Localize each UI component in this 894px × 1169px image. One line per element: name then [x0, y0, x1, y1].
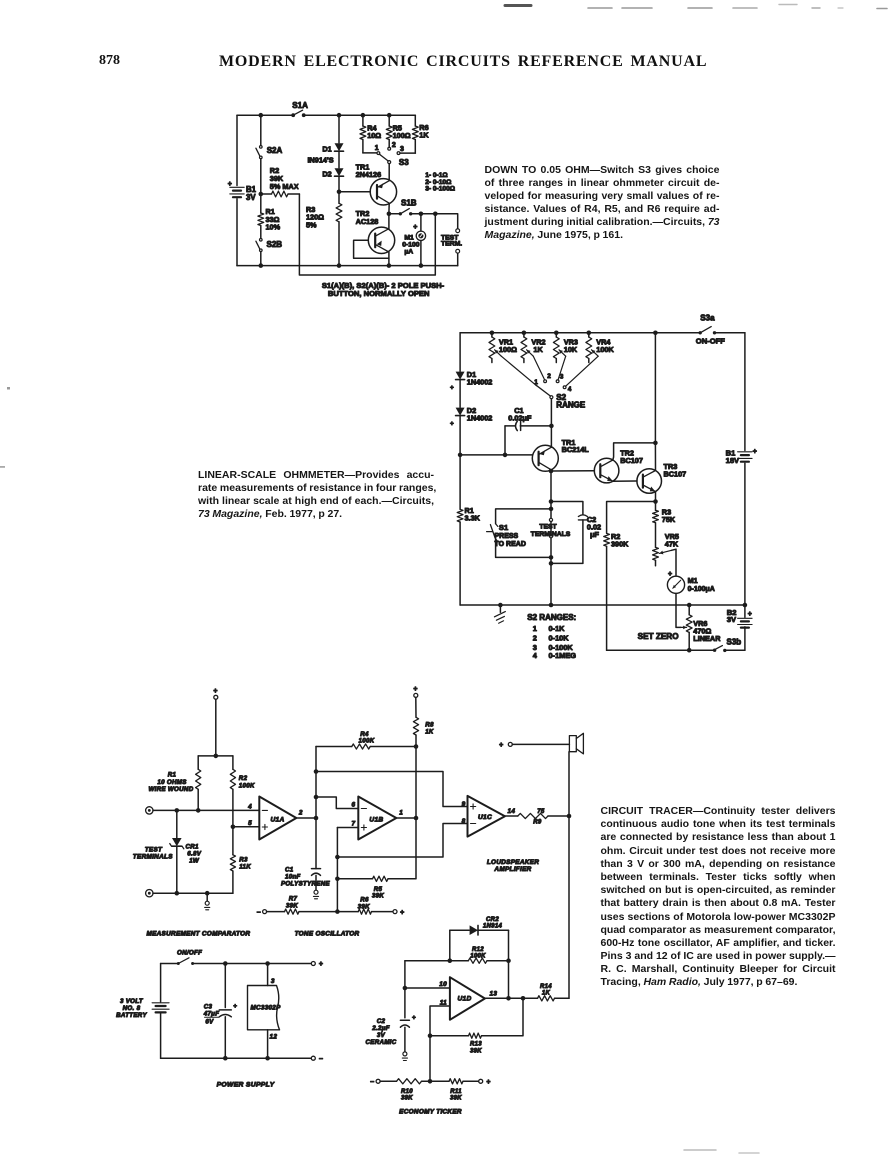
wire TR1 collector node down	[550, 471, 552, 502]
wire TR2 collector	[388, 214, 390, 229]
wire test terminal to U1A	[153, 809, 259, 811]
svg-text:5%: 5%	[306, 220, 317, 229]
svg-text:POWER SUPPLY: POWER SUPPLY	[217, 1082, 276, 1089]
wire D1 to D2	[459, 380, 461, 408]
svg-text:CR2: CR2	[486, 917, 499, 923]
wire left rail upper	[459, 333, 461, 371]
node VR2 top	[522, 331, 527, 336]
svg-text:IN914'S: IN914'S	[308, 155, 334, 164]
capacitor C1 0.02uF	[505, 406, 551, 455]
svg-text:100Ω: 100Ω	[393, 131, 411, 140]
svg-text:9: 9	[462, 801, 466, 808]
svg-text:WIRE WOUND: WIRE WOUND	[149, 786, 194, 793]
svg-text:1K: 1K	[425, 728, 434, 735]
resistor R13 39K	[430, 998, 523, 1054]
wire top rail left segment	[237, 114, 293, 116]
svg-text:100Ω: 100Ω	[499, 345, 517, 354]
svg-text:μF: μF	[590, 530, 599, 539]
svg-text:2.2μF: 2.2μF	[371, 1025, 390, 1032]
resistor R8 1K	[413, 697, 434, 746]
svg-text:100K: 100K	[470, 954, 486, 960]
node R8 R4 junction	[414, 744, 419, 749]
text block: CIRCUIT TRACER	[601, 805, 836, 990]
wire TR2 collector up and to rail branch	[613, 443, 656, 460]
wire TR1 emitter to S1B node	[388, 203, 390, 214]
svg-text:R10: R10	[401, 1089, 413, 1095]
wire M1 bottom to VR6 wiper	[676, 593, 687, 629]
wire VR4 wiper to contact 4	[566, 356, 598, 386]
svg-text:TONE OSCILLATOR: TONE OSCILLATOR	[295, 931, 360, 938]
svg-text:TEST: TEST	[539, 523, 557, 530]
svg-text:BUTTON, NORMALLY OPEN: BUTTON, NORMALLY OPEN	[328, 289, 430, 298]
resistor R4 10ohm	[360, 115, 381, 153]
svg-text:100K: 100K	[239, 783, 255, 790]
label 1N914'S	[308, 155, 334, 164]
svg-text:TEST: TEST	[145, 847, 163, 854]
wire R1 R2 top header	[198, 755, 233, 757]
wire bottom rail middle circuit	[460, 604, 745, 606]
wire comparator to U1C pin9	[316, 772, 468, 807]
svg-text:U1B: U1B	[369, 816, 383, 823]
wire TR3 emitter to node	[655, 492, 657, 502]
transistor TR2 AC128	[356, 209, 395, 254]
resistor R3 11K bottom circuit	[230, 827, 251, 893]
svg-text:+: +	[233, 1003, 237, 1010]
node R2/R1 junction	[259, 192, 264, 197]
legend S2 ranges	[527, 613, 576, 660]
svg-text:1N4002: 1N4002	[467, 414, 493, 423]
svg-text:4: 4	[533, 651, 538, 660]
svg-text:0-1K: 0-1K	[549, 624, 566, 633]
svg-text:D1: D1	[322, 144, 331, 153]
svg-text:8: 8	[462, 818, 466, 825]
label tone oscillator	[295, 931, 360, 938]
svg-text:−: −	[257, 909, 261, 916]
wire base node to TR1	[339, 191, 370, 193]
transistor TR1 2N4126	[356, 162, 397, 205]
node R7 R6 junction	[335, 909, 340, 914]
svg-text:10: 10	[439, 981, 447, 988]
transistor TR2 BC107	[594, 449, 643, 483]
svg-text:ON/OFF: ON/OFF	[177, 950, 202, 957]
svg-text:10Ω: 10Ω	[367, 131, 381, 140]
svg-text:3 VOLT: 3 VOLT	[120, 998, 144, 1005]
node R12 right	[506, 958, 511, 963]
svg-text:C3: C3	[204, 1004, 213, 1011]
resistor R12 100K	[405, 947, 509, 963]
resistor R2 39K 5% MAX	[261, 166, 300, 197]
wire oscillator left vertical	[315, 747, 317, 869]
wire TR2 emitter to TR3 base	[613, 480, 637, 482]
switch on/off power	[161, 958, 312, 965]
svg-text:11K: 11K	[239, 864, 251, 871]
node VR6 top rail	[687, 603, 692, 608]
svg-text:18V: 18V	[726, 456, 740, 465]
wire to TR2 base	[551, 470, 594, 472]
meter M1 0-100uA	[402, 214, 425, 266]
op-amp U1A	[247, 797, 296, 840]
svg-text:+: +	[412, 1014, 416, 1021]
svg-text:LOUDSPEAKER: LOUDSPEAKER	[487, 859, 539, 866]
svg-text:13: 13	[490, 990, 498, 997]
svg-text:6V: 6V	[205, 1019, 214, 1026]
resistor R2 390K	[604, 502, 656, 651]
wire S2 wire to TR1 emitter	[550, 426, 552, 447]
wire S2A branch upper	[260, 115, 262, 145]
wire VR5 wiper to meter	[672, 549, 677, 575]
node VR4 top	[587, 331, 592, 336]
node left rail TR1 base wire	[458, 453, 463, 458]
node VR6 bottom	[687, 648, 692, 653]
resistor R3 75K	[653, 502, 676, 548]
node supply to R1 R2	[214, 754, 219, 759]
wire top rail right segment	[304, 114, 416, 116]
op-amp U1C	[462, 796, 505, 837]
label measurement comparator	[146, 931, 250, 938]
svg-text:10nF: 10nF	[285, 874, 301, 881]
node C2 top junction	[549, 499, 554, 504]
svg-text:12: 12	[270, 1034, 278, 1041]
wire U1A output pin 2	[296, 809, 316, 818]
node output R13 branch	[521, 996, 526, 1001]
battery B1 18V	[726, 449, 757, 466]
svg-text:CR1: CR1	[186, 844, 200, 851]
wire rail branch vertical	[654, 333, 656, 443]
terminal TEST TERM top	[456, 229, 460, 233]
svg-text:−: −	[319, 1056, 323, 1063]
wire TR3 collector	[654, 443, 656, 471]
wire CR2 right vertical	[508, 930, 510, 998]
node R2 bottom inverting input	[231, 825, 236, 830]
diode D2 1N4002	[450, 406, 492, 428]
battery B1 3V	[228, 181, 257, 202]
wire bottom test terminal to rail	[457, 253, 459, 266]
label on/off	[177, 950, 202, 957]
node M1 bottom rail	[419, 263, 424, 268]
resistor R14 1K	[523, 984, 569, 1001]
svg-text:PRESS: PRESS	[495, 533, 519, 540]
svg-text:U1D: U1D	[458, 996, 472, 1003]
terminal TEST TERM bottom	[456, 249, 460, 253]
meter M1 0-100uA middle	[667, 571, 714, 593]
svg-text:TO READ: TO READ	[495, 541, 526, 548]
legend ranges	[425, 172, 456, 192]
wire S3 to TR1 collector	[388, 164, 390, 181]
svg-text:5% MAX: 5% MAX	[270, 182, 299, 191]
node R3 bottom rail	[337, 263, 342, 268]
node top rail / R4 branch	[361, 113, 366, 118]
terminal plus power supply	[311, 961, 323, 968]
node TR2 emitter bottom rail	[387, 263, 392, 268]
svg-text:R12: R12	[472, 947, 484, 953]
resistor R5 39K	[337, 818, 416, 900]
svg-text:+: +	[413, 224, 417, 231]
op-amp U1D	[439, 977, 485, 1020]
svg-text:1W: 1W	[189, 858, 200, 865]
node rail branch top	[653, 331, 658, 336]
node TR1/TR2/S1B junction	[387, 212, 392, 217]
svg-text:2N4126: 2N4126	[356, 170, 382, 179]
caption pushbutton note	[322, 281, 445, 298]
svg-text:R11: R11	[450, 1089, 462, 1095]
switch S3 contact 1	[375, 145, 380, 155]
wire TR1 collector to node	[550, 470, 552, 471]
node diode branch / TR1 base	[337, 190, 342, 195]
wire S2 wire pole to S1 top	[550, 502, 552, 509]
potentiometer VR2 1K	[521, 333, 546, 363]
svg-text:BC107: BC107	[664, 469, 687, 478]
text block: DOWN TO 0.05 OHM	[485, 164, 720, 243]
terminal plus economy ticker	[479, 1079, 491, 1086]
wire U1C output pin 14	[505, 808, 518, 816]
svg-text:3- 0-100Ω: 3- 0-100Ω	[425, 185, 456, 192]
resistor R1 10 ohms wire wound	[149, 756, 201, 811]
svg-text:MEASUREMENT COMPARATOR: MEASUREMENT COMPARATOR	[146, 931, 250, 938]
wire bottom test rail	[153, 892, 233, 894]
node ground on rail	[498, 603, 503, 608]
wire pin10 branch	[404, 961, 406, 988]
svg-text:R3: R3	[239, 856, 248, 863]
svg-text:CERAMIC: CERAMIC	[366, 1039, 397, 1046]
node CR1 top	[175, 808, 180, 813]
terminal plus supply measurement comparator	[213, 688, 218, 699]
svg-text:S1B: S1B	[401, 198, 417, 207]
svg-text:R13: R13	[470, 1042, 482, 1048]
diode D1 1N4002	[450, 370, 492, 392]
svg-text:+: +	[228, 181, 232, 188]
svg-text:C1: C1	[285, 867, 294, 874]
wire bottom rail	[237, 265, 458, 267]
svg-text:C2: C2	[377, 1018, 386, 1025]
terminal minus tone oscillator	[257, 909, 267, 916]
svg-text:RANGE: RANGE	[556, 401, 586, 410]
resistor R1 33ohm 10%	[258, 194, 281, 239]
terminal plus supply R8	[413, 686, 418, 697]
wire right rail mid	[744, 463, 746, 605]
node C1 left on base wire	[503, 453, 508, 458]
terminal minus economy ticker	[370, 1079, 380, 1086]
svg-text:3: 3	[560, 373, 564, 380]
ground terminal measurement comparator	[205, 893, 210, 910]
node R9 speaker junction	[567, 814, 572, 819]
svg-text:+: +	[319, 961, 323, 968]
svg-text:POLYSTYRENE: POLYSTYRENE	[281, 881, 330, 888]
diode D1 1N914	[322, 143, 343, 153]
wire diode branch upper	[338, 115, 340, 143]
op-amp U1B	[351, 797, 396, 840]
resistor R11 39K	[430, 1079, 479, 1102]
svg-text:U1A: U1A	[271, 816, 285, 823]
node pin7 branch wire B	[335, 855, 340, 860]
svg-text:ECONOMY TICKER: ECONOMY TICKER	[399, 1109, 462, 1116]
svg-text:2: 2	[298, 809, 303, 816]
wire left rail lower	[236, 199, 238, 266]
scan artifact left margin specks	[0, 387, 10, 468]
svg-text:3.3K: 3.3K	[465, 514, 481, 523]
svg-text:AMPLIFIER: AMPLIFIER	[493, 866, 531, 873]
svg-text:2: 2	[533, 633, 537, 642]
svg-text:S1A: S1A	[292, 101, 308, 110]
svg-text:39K: 39K	[372, 893, 384, 900]
wire left rail upper	[236, 115, 238, 185]
svg-text:14: 14	[508, 808, 516, 815]
svg-text:1N914: 1N914	[483, 924, 503, 930]
svg-text:75: 75	[537, 809, 545, 815]
wire U1D output pin 13	[485, 990, 523, 998]
svg-text:BATTERY: BATTERY	[116, 1012, 147, 1019]
battery B2 3V	[727, 605, 752, 628]
svg-text:47μF: 47μF	[203, 1011, 220, 1018]
wire R2 right end down and across to S1B junction	[299, 194, 435, 275]
resistor R5 100ohm	[386, 115, 410, 147]
wire S2A to R2 node	[260, 159, 262, 194]
svg-text:1: 1	[375, 145, 379, 152]
transistor TR3 BC107	[637, 462, 686, 493]
svg-text:TERM.: TERM.	[441, 240, 462, 247]
wire VR2 wiper to contact 2	[533, 356, 544, 380]
node C3 bottom	[223, 1056, 228, 1061]
wire D1 to D2	[338, 151, 340, 167]
svg-text:47K: 47K	[665, 539, 679, 548]
svg-text:3: 3	[400, 146, 404, 153]
potentiometer VR3 10K	[553, 333, 578, 363]
svg-text:+: +	[753, 449, 757, 456]
node U1A output	[314, 816, 319, 821]
wire U1C pin8 return	[337, 824, 467, 858]
wire U1A noninverting input	[233, 826, 259, 828]
IC MC3302P power pins	[248, 964, 282, 1059]
svg-text:0-10K: 0-10K	[549, 633, 570, 642]
svg-text:ON-OFF: ON-OFF	[696, 336, 725, 345]
wire top rail middle circuit	[460, 332, 700, 334]
wire output down to ticker	[568, 816, 570, 998]
battery 3 volt no 8	[116, 964, 169, 1059]
svg-text:100K: 100K	[596, 345, 614, 354]
svg-text:U1C: U1C	[478, 814, 492, 821]
switch S3 contact 2	[388, 142, 396, 150]
capacitor C2 2.2uF ceramic	[366, 988, 416, 1061]
svg-text:6.8V: 6.8V	[187, 851, 202, 858]
wire power bottom rail	[161, 1057, 312, 1059]
wire speaker down to output	[568, 752, 570, 816]
node ground stub	[205, 891, 210, 896]
node S2/C1 junction	[549, 424, 554, 429]
wire S2B to bottom rail	[260, 252, 262, 266]
resistor R1 3.3K	[457, 455, 480, 605]
node C3 top	[223, 961, 228, 966]
svg-text:1K: 1K	[419, 130, 429, 139]
potentiometer VR6 470ohm LINEAR	[686, 605, 721, 650]
svg-text:1: 1	[399, 809, 403, 816]
svg-text:NO. 8: NO. 8	[123, 1005, 141, 1012]
switch S1B	[389, 198, 417, 215]
svg-text:+: +	[499, 742, 503, 749]
svg-text:0-100μA: 0-100μA	[688, 586, 715, 593]
svg-text:4: 4	[247, 804, 252, 811]
svg-text:µA: µA	[404, 249, 413, 256]
svg-text:0-100: 0-100	[402, 241, 420, 248]
svg-text:75K: 75K	[662, 515, 676, 524]
potentiometer VR5 47K	[653, 532, 679, 566]
running head title	[219, 53, 707, 71]
node feedback upper	[314, 769, 319, 774]
svg-text:3V: 3V	[727, 615, 737, 624]
wire S2 pole down	[550, 399, 552, 426]
scan artifact bottom edge marks	[684, 1150, 759, 1153]
wire speaker feed	[512, 743, 569, 745]
svg-text:2: 2	[547, 373, 551, 380]
svg-text:+: +	[213, 688, 217, 695]
node pin12 bottom	[265, 1056, 270, 1061]
resistor R4 100K feedback	[316, 731, 416, 749]
node VR3 top	[554, 331, 559, 336]
switch S1A	[291, 101, 308, 117]
wire TR1 base	[460, 454, 532, 456]
svg-text:R1: R1	[168, 772, 177, 779]
svg-text:0-1MEG: 0-1MEG	[549, 651, 577, 660]
wire R2 bottom to VR6 node	[607, 649, 690, 651]
wire VR3 wiper to contact 3	[558, 356, 566, 380]
node CR1 bottom	[175, 891, 180, 896]
wire TR2 emitter to rail	[388, 252, 390, 266]
svg-text:1K: 1K	[542, 991, 551, 997]
svg-text:BC107: BC107	[620, 456, 643, 465]
scan artifact top edge marks	[505, 5, 887, 9]
svg-text:S2 RANGES:: S2 RANGES:	[527, 613, 576, 622]
wire plus terminal down	[215, 699, 217, 756]
node M1 branch top	[419, 212, 424, 217]
svg-text:−: −	[370, 1079, 374, 1086]
svg-text:MC3302P: MC3302P	[251, 1004, 282, 1011]
node TR1 collector / TR2 base	[549, 469, 554, 474]
wire D2 to base node	[459, 416, 461, 455]
node pin3 top	[265, 961, 270, 966]
diode D2 1N914	[322, 168, 343, 178]
switch S2 RANGE selector	[534, 373, 586, 409]
svg-text:3V: 3V	[377, 1032, 386, 1039]
label loudspeaker amplifier	[487, 859, 539, 873]
node pin10 C2 junction	[403, 986, 408, 991]
label power supply	[217, 1082, 276, 1089]
node U1B input branch	[314, 795, 319, 800]
svg-text:39K: 39K	[470, 1048, 482, 1054]
potentiometer VR1 100ohm	[489, 333, 517, 363]
svg-text:+: +	[668, 571, 672, 578]
node S1 top junction	[549, 507, 554, 512]
svg-text:TERMINALS: TERMINALS	[133, 854, 173, 861]
svg-text:LINEAR: LINEAR	[693, 634, 721, 643]
svg-text:2: 2	[392, 142, 396, 149]
svg-text:10 OHMS: 10 OHMS	[157, 779, 187, 786]
svg-text:1: 1	[533, 624, 537, 633]
svg-text:4: 4	[568, 386, 572, 393]
svg-text:39K: 39K	[286, 902, 298, 909]
svg-text:R9: R9	[533, 820, 542, 826]
node right rail bottom rail	[743, 603, 748, 608]
svg-text:+: +	[450, 421, 454, 428]
svg-text:R2: R2	[239, 775, 248, 782]
svg-text:39K: 39K	[450, 1096, 462, 1102]
wire TR2 base loop	[354, 240, 389, 258]
svg-text:R14: R14	[540, 984, 552, 990]
node C2 bottom junction	[549, 561, 554, 566]
node top rail / S2A branch	[259, 113, 264, 118]
switch S2B	[256, 239, 282, 252]
svg-text:6: 6	[351, 802, 355, 809]
node VR1 top	[490, 331, 495, 336]
svg-text:1N4002: 1N4002	[467, 378, 493, 387]
resistor R6 1K	[400, 115, 429, 153]
